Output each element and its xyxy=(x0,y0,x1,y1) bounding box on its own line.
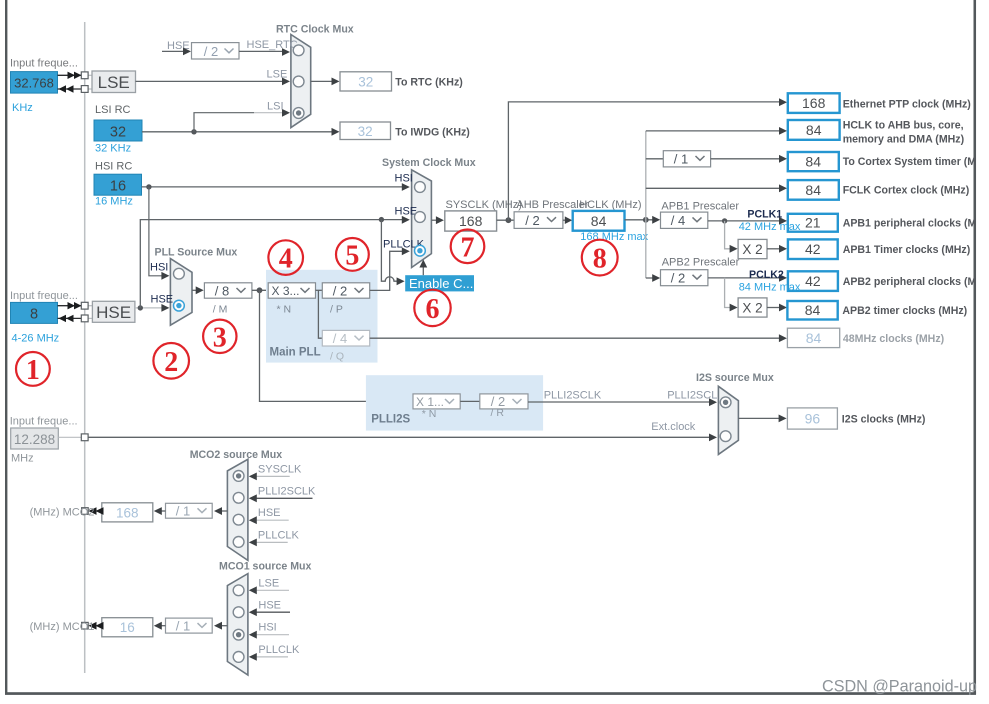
wire HSE box to junction (light) xyxy=(135,307,163,309)
svg-text:2: 2 xyxy=(164,347,178,378)
wire PLLI2SCLK stub into MCO2 xyxy=(256,497,313,499)
node junction M-out xyxy=(257,287,263,293)
wire system mux output to SYSCLK box xyxy=(431,219,437,221)
node rail handle HSE out xyxy=(81,315,88,322)
wire none: right margin mask xyxy=(976,0,989,704)
value box MCO1 16 (disabled) xyxy=(102,618,153,637)
svg-text:APB1 peripheral clocks (MH: APB1 peripheral clocks (MH xyxy=(843,218,984,230)
wire HCLK vertical distribution xyxy=(645,131,647,278)
svg-text:I2S source Mux: I2S source Mux xyxy=(696,372,774,384)
svg-text:/ 1: / 1 xyxy=(176,618,190,633)
node radio SYSCLK (selected) xyxy=(233,471,244,482)
svg-text:RTC Clock Mux: RTC Clock Mux xyxy=(276,23,354,35)
value box MCO2 168 (disabled) xyxy=(102,503,153,522)
block Main PLL panel xyxy=(266,270,378,363)
svg-text:LSI RC: LSI RC xyxy=(95,104,131,116)
value box 48MHz clocks 84 (disabled) xyxy=(787,328,839,347)
value box Cortex timer 84 xyxy=(788,152,839,171)
svg-text:HSE: HSE xyxy=(151,294,174,306)
value box APB1 timer 42 xyxy=(788,239,838,259)
value box Ethernet PTP 168 xyxy=(788,93,840,113)
divider dropdown /Q = /4 (disabled) xyxy=(322,330,369,346)
svg-text:84: 84 xyxy=(591,213,607,229)
svg-text:8: 8 xyxy=(30,306,38,322)
svg-text:/ 4: / 4 xyxy=(671,213,685,228)
wire HSE up to system clock mux xyxy=(140,220,403,308)
node rail handle MCO2 xyxy=(82,508,89,515)
value box To IWDG 32 xyxy=(340,122,391,140)
wire HSE stub into MCO2 xyxy=(256,519,289,521)
svg-text:Input freque...: Input freque... xyxy=(10,290,78,302)
svg-text:12.288: 12.288 xyxy=(14,432,55,447)
wire CSS branch down to Enable button (with hop) xyxy=(381,220,397,282)
svg-text:21: 21 xyxy=(805,215,821,231)
svg-text:To IWDG (KHz): To IWDG (KHz) xyxy=(395,126,470,138)
svg-text:SYSCLK (MHz): SYSCLK (MHz) xyxy=(446,199,522,211)
svg-text:4-26 MHz: 4-26 MHz xyxy=(12,332,60,344)
wire SYSCLK stub into MCO2 xyxy=(256,475,290,477)
svg-text:Main PLL: Main PLL xyxy=(270,346,321,358)
node rail handle MCO1 xyxy=(82,622,89,629)
svg-text:MCO2 source Mux: MCO2 source Mux xyxy=(190,449,283,461)
node junction SYSCLK xyxy=(506,217,512,223)
svg-text:X 1...: X 1... xyxy=(416,395,444,409)
svg-text:/ 2: / 2 xyxy=(525,213,539,228)
svg-text:APB1 Prescaler: APB1 Prescaler xyxy=(661,200,739,212)
wire FCLK row xyxy=(646,187,780,189)
svg-text:32: 32 xyxy=(110,125,126,141)
value box APB2 timer 84 xyxy=(787,301,837,320)
svg-text:memory and DMA (MHz): memory and DMA (MHz) xyxy=(843,134,964,146)
wire APB1 branch down to X2 xyxy=(725,221,731,249)
svg-text:32: 32 xyxy=(358,74,373,89)
wire RTC divider to RTC mux xyxy=(239,50,283,52)
svg-text:/ 4: / 4 xyxy=(333,331,347,346)
annotation circled 5 xyxy=(336,238,369,271)
node radio PLLCLK (unselected) xyxy=(233,652,244,663)
mux I2S source Mux xyxy=(718,386,738,454)
svg-text:APB2 peripheral clocks (MH: APB2 peripheral clocks (MH xyxy=(843,276,984,288)
svg-text:(MHz) MCO1: (MHz) MCO1 xyxy=(30,621,95,633)
button Enable CSS xyxy=(405,275,474,291)
window frame bottom border xyxy=(5,692,976,695)
node junction APB1 xyxy=(722,218,727,223)
wire PLLI2SCLK to I2S mux xyxy=(528,401,711,403)
wire PLLCLK from /P up to system clock mux xyxy=(370,251,403,290)
svg-text:Input freque...: Input freque... xyxy=(10,415,78,427)
svg-text:To RTC (KHz): To RTC (KHz) xyxy=(395,76,462,88)
node radio PLLCLK (unselected) xyxy=(233,537,244,548)
wire HSE stub into RTC divider xyxy=(162,50,184,52)
input frequency box 8 (HSE osc) xyxy=(11,302,58,323)
svg-text:* N: * N xyxy=(277,303,292,315)
svg-text:(MHz) MCO2: (MHz) MCO2 xyxy=(30,506,95,518)
node radio HSE (unselected) xyxy=(233,514,244,525)
wire LSI to IWDG xyxy=(142,131,333,133)
svg-text:84: 84 xyxy=(805,302,821,318)
wire 48MHz from /Q to output box xyxy=(370,337,781,339)
svg-text:84: 84 xyxy=(806,330,822,346)
svg-text:HSI RC: HSI RC xyxy=(95,161,132,173)
svg-text:32 KHz: 32 KHz xyxy=(95,143,131,155)
divider dropdown PLLI2S /R = /2 xyxy=(480,394,528,409)
svg-text:84: 84 xyxy=(805,153,821,169)
wire APB2 prescaler to PCLK2 box xyxy=(708,277,780,279)
svg-text:Enable C...: Enable C... xyxy=(409,276,473,291)
wire LSE osc-in with double arrows xyxy=(58,74,82,76)
wire HCLK branch to APB2 prescaler xyxy=(646,277,654,279)
svg-text:/ 1: / 1 xyxy=(674,152,688,167)
svg-text:PLLCLK: PLLCLK xyxy=(258,529,300,541)
wire HCLK to AHB row xyxy=(646,130,780,132)
svg-text:168: 168 xyxy=(802,95,826,111)
wire MCO2 box to pin double arrows xyxy=(88,510,102,512)
wire N to P divider xyxy=(316,289,323,291)
svg-text:LSE: LSE xyxy=(98,73,130,92)
wire branch down to PLLI2S xyxy=(260,290,414,401)
divider dropdown AHB /2 xyxy=(514,212,563,229)
annotation circled 8 xyxy=(582,240,618,276)
svg-text:84: 84 xyxy=(805,182,821,198)
svg-text:PLL Source Mux: PLL Source Mux xyxy=(155,246,238,258)
divider dropdown MCO2 /1 xyxy=(166,503,213,518)
svg-text:/ 2: / 2 xyxy=(671,271,685,286)
svg-text:HSI: HSI xyxy=(258,622,276,634)
block PLLI2S panel xyxy=(366,375,543,430)
wire MCO1 /1 to 16 box xyxy=(160,625,165,627)
wire MCO2 /1 to 168 box xyxy=(160,510,165,512)
node radio HSE (unselected) xyxy=(415,212,426,223)
wire MCO1 mux output to /1 divider xyxy=(221,625,228,627)
wire SYSCLK up to Ethernet PTP xyxy=(508,102,780,220)
svg-text:MCO1 source Mux: MCO1 source Mux xyxy=(219,560,312,572)
node junction HCLK xyxy=(643,217,649,223)
svg-text:APB1 Timer clocks (MHz): APB1 Timer clocks (MHz) xyxy=(843,244,971,256)
window frame right border xyxy=(974,0,977,694)
svg-text:/ 2: / 2 xyxy=(333,283,347,298)
window frame left border xyxy=(5,0,7,694)
wire LSI branch up to RTC mux xyxy=(194,113,254,132)
wire ext clock to I2S mux xyxy=(88,436,710,438)
wire PLL mux output to /M divider xyxy=(192,289,198,291)
svg-text:HSE_RTC: HSE_RTC xyxy=(247,39,298,51)
svg-text:APB2 timer clocks (MHz): APB2 timer clocks (MHz) xyxy=(842,305,967,317)
node radio PLLI2SCLK (selected) xyxy=(720,397,731,408)
oscillator block HSI RC 16 xyxy=(94,174,142,195)
wire X2 to APB2 timer box xyxy=(767,307,780,309)
svg-text:/ M: / M xyxy=(213,303,228,315)
svg-text:LSE: LSE xyxy=(258,577,279,589)
svg-text:LSE: LSE xyxy=(267,68,288,80)
multiplier block X2 (APB1 timers) xyxy=(738,239,767,258)
node radio LSE (unselected) xyxy=(293,76,304,87)
node rail handle LSE in xyxy=(81,72,88,79)
svg-text:PLLI2SCLK: PLLI2SCLK xyxy=(667,390,725,402)
value box FCLK 84 xyxy=(788,180,839,200)
wire cortex divider to box xyxy=(711,158,781,160)
svg-text:SYSCLK: SYSCLK xyxy=(258,463,302,475)
svg-text:84 MHz max: 84 MHz max xyxy=(739,281,801,293)
svg-text:MHz: MHz xyxy=(11,453,34,465)
wire SYSCLK out to AHB prescaler xyxy=(497,219,514,221)
value box HCLK 84 (highlighted) xyxy=(573,211,625,231)
oscillator block LSE xyxy=(92,71,136,93)
wire AHB prescaler to HCLK box xyxy=(563,219,566,221)
wire HSI branch down to PLL mux xyxy=(149,187,163,276)
svg-text:X 2: X 2 xyxy=(742,242,762,257)
svg-text:7: 7 xyxy=(461,232,475,263)
svg-text:168: 168 xyxy=(459,213,483,229)
divider dropdown /M = /8 xyxy=(204,283,252,298)
annotation circled 6 xyxy=(414,290,450,326)
oscillator block HSE xyxy=(92,301,134,322)
svg-text:HSE: HSE xyxy=(258,507,281,519)
node radio HSI (unselected) xyxy=(415,182,426,193)
multiplier block X2 (APB2 timers) xyxy=(738,298,767,317)
svg-text:/ R: / R xyxy=(491,407,505,419)
node radio Ext.clock (unselected) xyxy=(720,431,731,442)
svg-text:32: 32 xyxy=(358,124,373,139)
wire HSE osc-in with double arrows xyxy=(58,305,82,307)
node radio HSE (unselected) xyxy=(233,607,244,618)
wire I2S mux output to 96 box xyxy=(738,417,780,419)
svg-text:/ P: / P xyxy=(330,303,343,315)
node radio HSE_RTC (unselected) xyxy=(293,45,304,56)
svg-text:To Cortex System timer (MHz: To Cortex System timer (MHz xyxy=(843,156,989,168)
svg-text:96: 96 xyxy=(805,411,821,427)
annotation circled 7 xyxy=(451,230,485,264)
node junction HSE-CSS branch xyxy=(379,217,384,222)
input frequency box 32.768 (LSE osc) xyxy=(11,72,58,94)
value box HCLK to AHB 84 xyxy=(788,120,840,140)
svg-text:AHB Prescaler: AHB Prescaler xyxy=(516,199,588,211)
svg-text:X 3...: X 3... xyxy=(272,284,300,298)
multiplier dropdown PLLI2S *N = X 1... xyxy=(413,394,460,409)
svg-text:42: 42 xyxy=(805,273,821,289)
value box I2S 96 (disabled) xyxy=(787,408,837,429)
svg-text:* N: * N xyxy=(422,408,437,420)
svg-text:X 2: X 2 xyxy=(742,300,762,315)
svg-text:/ Q: / Q xyxy=(330,350,344,362)
svg-text:LSI: LSI xyxy=(267,101,284,113)
annotation circled 2 xyxy=(153,343,189,379)
annotation circled 3 xyxy=(203,320,236,354)
node radio LSI (selected) xyxy=(293,108,304,119)
wire 12.288 box to rail xyxy=(58,436,81,438)
svg-text:FCLK Cortex clock (MHz): FCLK Cortex clock (MHz) xyxy=(843,185,970,197)
wire PLLI2S N to R xyxy=(460,400,480,402)
svg-text:CSDN @Paranoid-up: CSDN @Paranoid-up xyxy=(822,678,977,696)
node radio LSE (unselected) xyxy=(233,585,244,596)
node rail handle HSE in xyxy=(81,302,88,309)
wire Enable CSS up-arrow into mux xyxy=(422,266,424,275)
svg-text:System Clock Mux: System Clock Mux xyxy=(382,157,476,169)
wire MCO1 box to pin double arrows xyxy=(88,625,102,627)
wire HSI stub into MCO1 xyxy=(256,634,289,636)
node radio PLLCLK (selected blue) xyxy=(415,245,426,256)
svg-text:168: 168 xyxy=(116,505,139,520)
wire HSE osc-out with double arrows xyxy=(58,317,82,319)
node radio HSI (unselected) xyxy=(174,268,185,279)
divider dropdown APB2 /2 xyxy=(661,270,708,286)
svg-text:HSE: HSE xyxy=(395,205,418,217)
svg-text:PLLCLK: PLLCLK xyxy=(258,644,300,656)
wire RTC mux output xyxy=(311,80,333,82)
svg-text:4: 4 xyxy=(279,244,293,275)
svg-text:Ethernet PTP clock (MHz): Ethernet PTP clock (MHz) xyxy=(843,98,971,110)
wire LSE stub into MCO1 xyxy=(256,589,289,591)
wire LSE to RTC mux xyxy=(136,80,284,82)
svg-text:/ 2: / 2 xyxy=(204,44,218,59)
svg-text:Input freque...: Input freque... xyxy=(10,58,78,70)
node radio HSE (selected blue) xyxy=(174,300,185,311)
svg-text:Ext.clock: Ext.clock xyxy=(651,421,696,433)
value box SYSCLK 168 xyxy=(445,211,497,231)
svg-text:5: 5 xyxy=(345,240,359,271)
svg-text:PCLK1: PCLK1 xyxy=(747,208,782,220)
svg-text:8: 8 xyxy=(593,244,607,275)
wire PLLCLK stub into MCO2 xyxy=(256,541,288,543)
mux System Clock Mux xyxy=(412,170,432,268)
svg-text:/ 8: / 8 xyxy=(215,283,229,298)
node junction LSI xyxy=(191,129,196,134)
svg-text:PLLI2S: PLLI2S xyxy=(371,413,410,425)
mux RTC Clock Mux xyxy=(291,35,311,128)
svg-text:KHz: KHz xyxy=(12,102,33,114)
node junction HSE xyxy=(138,305,143,310)
value box To RTC 32 xyxy=(340,72,392,91)
wire HSE stub into MCO1 xyxy=(256,611,290,613)
wire branch N-out down to Q divider xyxy=(318,290,322,338)
svg-text:6: 6 xyxy=(426,294,440,325)
svg-text:HCLK (MHz): HCLK (MHz) xyxy=(579,199,641,211)
divider dropdown HSE RTC /2 xyxy=(192,43,240,59)
wire cortex timer row xyxy=(646,158,664,160)
value box APB1 peripheral 21 xyxy=(788,214,838,232)
svg-text:48MHz clocks (MHz): 48MHz clocks (MHz) xyxy=(843,333,944,345)
svg-text:16: 16 xyxy=(120,620,135,635)
wire MCO2 mux output to /1 divider xyxy=(221,510,228,512)
svg-text:42: 42 xyxy=(805,241,821,257)
svg-text:HCLK to AHB bus, core,: HCLK to AHB bus, core, xyxy=(843,119,964,131)
svg-text:32.768: 32.768 xyxy=(14,76,54,91)
svg-text:1: 1 xyxy=(26,355,40,386)
wire LSE osc-out with double arrows xyxy=(58,88,82,90)
node rail handle LSE out xyxy=(81,86,88,93)
multiplier dropdown *N = X 3... xyxy=(268,283,315,298)
value box APB2 peripheral 42 xyxy=(788,271,838,291)
wire PLLCLK stub into MCO1 xyxy=(256,656,288,658)
wire X2 to APB1 timer box xyxy=(767,248,780,250)
svg-text:HSI: HSI xyxy=(150,262,168,274)
mux PLL Source Mux xyxy=(170,259,192,326)
svg-text:PLLI2SCLK: PLLI2SCLK xyxy=(258,485,316,497)
svg-text:HSE: HSE xyxy=(258,599,281,611)
node radio HSI (selected) xyxy=(233,629,244,640)
wire HCLK out to APB1 prescaler xyxy=(625,219,655,221)
wire HSI to system clock mux xyxy=(142,186,404,188)
mux MCO1 source Mux xyxy=(227,574,248,675)
divider dropdown Cortex /1 xyxy=(663,151,710,167)
annotation circled 1 xyxy=(16,352,50,386)
svg-text:HSI: HSI xyxy=(395,172,413,184)
svg-text:PLLI2SCLK: PLLI2SCLK xyxy=(544,390,602,402)
wire APB1 prescaler to PCLK1 box xyxy=(708,220,780,222)
wire APB2 branch down to X2 xyxy=(725,278,731,308)
svg-text:84: 84 xyxy=(806,122,822,138)
svg-text:/ 1: / 1 xyxy=(176,504,190,519)
wire /M output to N multiplier xyxy=(252,289,268,291)
oscillator block LSI RC 32 xyxy=(94,120,142,141)
svg-text:16 MHz: 16 MHz xyxy=(95,196,133,208)
input frequency box 12.288 (I2S ext clock, disabled) xyxy=(11,428,59,449)
node junction HSI xyxy=(146,184,151,189)
svg-text:APB2 Prescaler: APB2 Prescaler xyxy=(662,257,740,269)
node radio PLLI2SCLK (unselected) xyxy=(233,492,244,503)
divider dropdown APB1 /4 xyxy=(661,212,708,228)
divider dropdown /P = /2 xyxy=(322,283,369,298)
annotation circled 4 xyxy=(268,240,303,275)
svg-text:16: 16 xyxy=(110,179,126,195)
divider dropdown MCO1 /1 xyxy=(166,618,213,633)
node rail handle ext clock xyxy=(81,434,88,441)
svg-text:3: 3 xyxy=(213,322,227,353)
svg-text:HSE: HSE xyxy=(96,303,131,322)
vertical bus rail xyxy=(84,22,86,673)
svg-text:PCLK2: PCLK2 xyxy=(749,269,784,281)
svg-text:42 MHz max: 42 MHz max xyxy=(739,221,801,233)
mux MCO2 source Mux xyxy=(227,459,248,560)
svg-text:I2S clocks (MHz): I2S clocks (MHz) xyxy=(842,413,926,425)
